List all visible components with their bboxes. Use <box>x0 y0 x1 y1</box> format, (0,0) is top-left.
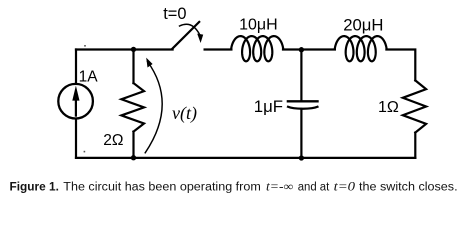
svg-text:the switch closes.: the switch closes. <box>359 180 458 194</box>
svg-text:10μH: 10μH <box>239 16 278 33</box>
svg-text:1Ω: 1Ω <box>378 99 399 116</box>
svg-text:and at: and at <box>298 180 330 194</box>
svg-text:Figure 1.: Figure 1. <box>10 180 59 194</box>
svg-text:v(t): v(t) <box>172 103 197 124</box>
svg-text:1A: 1A <box>79 68 99 85</box>
svg-text:t=0: t=0 <box>334 180 356 194</box>
svg-text:t=0: t=0 <box>163 5 186 23</box>
svg-text:2Ω: 2Ω <box>103 132 123 149</box>
svg-text:t=-∞: t=-∞ <box>266 180 293 194</box>
svg-text:20μH: 20μH <box>343 16 383 35</box>
svg-text:1μF: 1μF <box>254 97 283 116</box>
svg-text:The circuit has been operating: The circuit has been operating from <box>63 180 260 194</box>
